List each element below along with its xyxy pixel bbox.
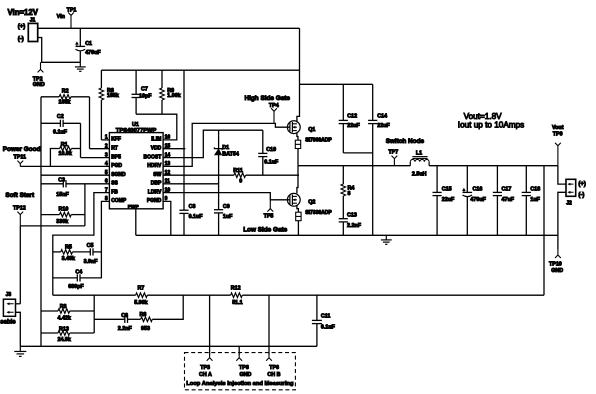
- ground at output rail: [385, 235, 387, 239]
- capacitor C12 22uF input: [342, 84, 344, 120]
- svg-text:C7: C7: [141, 87, 148, 93]
- capacitor C8 0.1uF VDD bypass: [183, 149, 185, 211]
- svg-text:165k: 165k: [107, 93, 119, 99]
- svg-text:8: 8: [348, 191, 351, 197]
- svg-text:C18: C18: [530, 186, 540, 192]
- svg-text:TP4: TP4: [269, 103, 279, 109]
- svg-text:KFF: KFF: [111, 137, 121, 143]
- svg-text:16: 16: [165, 135, 171, 141]
- svg-text:TP7: TP7: [388, 150, 398, 156]
- svg-text:C16: C16: [473, 186, 483, 192]
- svg-text:0.1uF: 0.1uF: [321, 324, 336, 330]
- svg-text:C4: C4: [75, 270, 82, 276]
- svg-text:J2: J2: [566, 200, 572, 206]
- svg-text:BOOST: BOOST: [144, 154, 162, 160]
- svg-text:GND: GND: [240, 372, 252, 378]
- wire Vin branch down to Q1 drain: [297, 28, 300, 122]
- capacitor C11 0.1uF: [316, 295, 318, 320]
- svg-text:PGND: PGND: [147, 198, 162, 204]
- wire J3 top pin to TP12 net: [16, 303, 21, 305]
- wire ILIM net C7 R9 to pin 16: [136, 114, 177, 140]
- svg-text:953: 953: [141, 326, 150, 332]
- svg-text:5.90k: 5.90k: [134, 300, 147, 306]
- svg-text:TP8: TP8: [239, 365, 249, 371]
- capacitor C14 22uF input: [372, 84, 374, 120]
- svg-text:470uF: 470uF: [85, 50, 101, 56]
- svg-text:C1: C1: [85, 41, 92, 47]
- wire node A between R7 and R12: [147, 294, 230, 296]
- svg-text:J3: J3: [6, 292, 12, 298]
- svg-text:C3: C3: [58, 177, 65, 183]
- svg-text:R3: R3: [60, 304, 67, 310]
- wire C2 riser to BP5 pin3: [80, 123, 82, 157]
- svg-text:10pF: 10pF: [139, 94, 152, 100]
- svg-text:BP5: BP5: [111, 154, 121, 160]
- svg-text:Switch Node: Switch Node: [386, 138, 425, 145]
- svg-text:D1: D1: [222, 145, 229, 151]
- svg-text:SS: SS: [111, 181, 118, 187]
- svg-text:L1: L1: [416, 151, 422, 157]
- svg-text:GND: GND: [551, 268, 563, 274]
- svg-text:1uF: 1uF: [530, 197, 540, 203]
- resistor R12 51.1 loop injection: [231, 293, 243, 298]
- svg-text:2.2nF: 2.2nF: [347, 223, 362, 229]
- svg-text:C5: C5: [87, 243, 94, 249]
- svg-text:R13: R13: [59, 327, 69, 333]
- resistor R7 5.90k feedback: [136, 293, 148, 298]
- svg-text:Iout up to 10Amps: Iout up to 10Amps: [458, 120, 524, 129]
- wire R8 riser to node A: [152, 295, 183, 319]
- capacitor C7 10pF: [135, 70, 137, 94]
- svg-text:3.9nF: 3.9nF: [84, 259, 99, 265]
- inductor L1 2.5uH: [409, 162, 411, 166]
- svg-text:(+): (+): [18, 24, 26, 30]
- wire C12 C14 input cap top rail: [300, 83, 373, 85]
- svg-text:0.1uF: 0.1uF: [264, 159, 279, 165]
- svg-text:R7: R7: [138, 286, 145, 292]
- svg-text:0: 0: [239, 179, 242, 185]
- transistor Q2 SI7336ADP low side: [287, 193, 300, 206]
- capacitor C4 680pF: [53, 277, 78, 279]
- svg-text:R11: R11: [233, 168, 243, 174]
- wire Q2 drain from switch node: [297, 166, 298, 194]
- wire Vin sub-rail to R6 C7 R9 VDD: [101, 69, 299, 71]
- svg-text:R10: R10: [59, 207, 69, 213]
- connector J1: [28, 23, 37, 41]
- wire VDD riser from rail to pin 15: [183, 70, 185, 149]
- svg-text:51.1: 51.1: [232, 300, 242, 306]
- test point TP4 High Side Gate: [271, 108, 277, 123]
- svg-text:(-): (-): [578, 193, 584, 199]
- svg-text:680pF: 680pF: [68, 284, 84, 290]
- svg-text:C11: C11: [321, 313, 331, 319]
- svg-text:R1: R1: [61, 142, 68, 148]
- wire input caps to ground rail: [343, 152, 372, 154]
- svg-text:C12: C12: [347, 113, 357, 119]
- resistor R1 10.0k PGD pull-up: [50, 149, 59, 167]
- capacitor C3 15nF soft start: [41, 183, 63, 185]
- svg-text:0.1uF: 0.1uF: [53, 129, 68, 135]
- wire TP12 row: [20, 225, 85, 227]
- wire PGD row to TP11: [20, 165, 109, 167]
- svg-text:15nF: 15nF: [56, 192, 69, 198]
- svg-text:Power Good: Power Good: [3, 146, 41, 153]
- svg-text:47uF: 47uF: [502, 197, 515, 203]
- svg-text:22uF: 22uF: [347, 123, 360, 129]
- wire Q2 source with package pads: [297, 205, 299, 212]
- capacitor C17 47uF output: [496, 166, 498, 193]
- svg-text:SI7860ADP: SI7860ADP: [305, 137, 332, 143]
- test point TP1 Vin: [68, 12, 74, 28]
- test point TP5 Low Side Gate: [267, 200, 273, 212]
- capacitor C15 22uF output: [436, 166, 438, 193]
- wire SGND pin5 to gnd vertical: [41, 174, 109, 176]
- svg-text:C2: C2: [57, 114, 64, 120]
- wire Vout row: [429, 165, 558, 167]
- wire Vin rail from J1 to Q1 drain branch: [38, 27, 300, 29]
- svg-text:TP3: TP3: [200, 365, 210, 371]
- wire HDRV pin13 to Q1 gate: [163, 123, 290, 166]
- svg-text:TP10: TP10: [549, 262, 562, 268]
- wire switch node row: [298, 165, 410, 167]
- resistor R11 0 ohm SW sense: [234, 173, 246, 178]
- svg-text:(-): (-): [18, 37, 24, 43]
- svg-text:BAT54: BAT54: [222, 152, 239, 158]
- svg-text:C17: C17: [502, 186, 512, 192]
- svg-text:C6: C6: [121, 313, 128, 319]
- svg-text:Loop Analysis Injection and Me: Loop Analysis Injection and Measuring: [186, 381, 294, 387]
- resistor R9 1.00k ILIM: [161, 70, 163, 88]
- svg-text:GND: GND: [33, 82, 45, 88]
- wire node B from R12 to sense riser: [242, 294, 544, 296]
- resistor R13 24.9k divider: [41, 332, 58, 334]
- svg-text:TP9: TP9: [553, 131, 563, 137]
- svg-text:TP1: TP1: [67, 7, 77, 13]
- svg-text:PWP: PWP: [128, 204, 140, 210]
- connector J2: [566, 179, 576, 196]
- svg-text:sable: sable: [0, 320, 16, 326]
- wire PWP pad to ground rail: [135, 209, 137, 236]
- svg-text:SGND: SGND: [111, 172, 126, 178]
- capacitor C16 470uF output: [466, 166, 468, 193]
- svg-text:LDRV: LDRV: [148, 189, 162, 195]
- wire Q1 source with package pads: [297, 132, 298, 140]
- svg-text:High Side Gate: High Side Gate: [245, 95, 291, 102]
- svg-text:4.42k: 4.42k: [58, 315, 71, 321]
- capacitor C2 0.1uF BP5 bypass: [41, 122, 60, 124]
- resistor R10 330k soft start: [41, 214, 60, 216]
- wire KFF pin1 stub: [101, 139, 109, 141]
- wire Vout sense riser: [543, 166, 545, 296]
- svg-text:R5: R5: [65, 245, 72, 251]
- dashed loop analysis box: [185, 353, 296, 390]
- svg-text:TP11: TP11: [14, 155, 27, 161]
- test point TP2 GND: [38, 62, 44, 72]
- svg-text:SI7336ADP: SI7336ADP: [305, 210, 332, 216]
- wire R2 riser to RT pin2: [89, 97, 91, 149]
- svg-text:DBP: DBP: [151, 181, 162, 187]
- wire J1 minus to C1 bottom: [38, 38, 81, 63]
- svg-text:J1: J1: [30, 18, 36, 24]
- svg-text:Vin=12V: Vin=12V: [8, 8, 39, 17]
- svg-text:24.9k: 24.9k: [58, 337, 71, 343]
- svg-text:RT: RT: [111, 146, 118, 152]
- svg-text:22uF: 22uF: [442, 197, 455, 203]
- wire BOOST pin14 routing: [163, 130, 263, 157]
- test point TP10 GND: [555, 250, 561, 258]
- wire COMP pin8 riser: [101, 201, 109, 278]
- svg-text:FB: FB: [111, 189, 118, 195]
- svg-text:Low Side Gate: Low Side Gate: [243, 226, 287, 233]
- wire DBP pin11 to D1 C9: [163, 183, 219, 185]
- wire J2 minus to ground rail and TP10: [558, 192, 566, 250]
- capacitor C6 2.2nF injection: [94, 318, 125, 320]
- svg-text:TP12: TP12: [13, 206, 26, 212]
- svg-text:Q1: Q1: [308, 127, 315, 133]
- svg-text:(+): (+): [578, 181, 586, 187]
- svg-text:TP6: TP6: [269, 365, 279, 371]
- node analog ground vertical: [40, 97, 42, 346]
- wire feedback row left of R7: [53, 294, 136, 296]
- svg-text:HDRV: HDRV: [147, 163, 162, 169]
- test point TP8 GND riser: [238, 346, 240, 354]
- ground at J3: [19, 346, 21, 351]
- svg-text:C14: C14: [377, 113, 387, 119]
- resistor R5 3.48k: [53, 251, 61, 253]
- svg-text:R8: R8: [140, 312, 147, 318]
- svg-text:Q2: Q2: [308, 200, 315, 206]
- wire FB pin7 to comp network: [53, 193, 110, 296]
- svg-text:3.48k: 3.48k: [62, 256, 75, 262]
- svg-text:TP5: TP5: [264, 214, 274, 220]
- svg-text:15: 15: [165, 144, 171, 150]
- svg-text:TPS40077PWP: TPS40077PWP: [116, 128, 157, 134]
- svg-text:Soft Start: Soft Start: [5, 192, 35, 199]
- svg-text:165k: 165k: [59, 100, 71, 106]
- wire power ground rail: [136, 234, 558, 236]
- svg-text:CH A: CH A: [199, 372, 212, 378]
- resistor R8 953 injection: [128, 318, 141, 320]
- resistor R4 8 snubber: [342, 166, 344, 184]
- wire TP12 net down to J3: [19, 226, 21, 304]
- svg-text:C10: C10: [266, 147, 276, 153]
- capacitor C10 0.1uF boost: [262, 130, 264, 153]
- svg-text:0.1uF: 0.1uF: [189, 214, 204, 220]
- wire J3 bottom pin to ground: [16, 312, 21, 346]
- test point TP3 CH A riser: [209, 295, 211, 354]
- capacitor C13 2.2nF snubber: [342, 196, 344, 219]
- diode D1 BAT54 boost: [218, 130, 220, 148]
- wire LDRV pin10 to Q2 gate: [163, 193, 290, 200]
- svg-text:VDD: VDD: [151, 146, 162, 152]
- test point TP6 CH B riser: [268, 295, 270, 354]
- wire PGND pin9 to power ground rail: [163, 201, 171, 235]
- capacitor C18 1uF output: [525, 166, 527, 193]
- capacitor C9 1uF DBP bypass: [214, 209, 223, 211]
- capacitor C1 470uF input bulk: [79, 28, 81, 46]
- svg-text:1uF: 1uF: [223, 214, 233, 220]
- svg-text:2.5uH: 2.5uH: [412, 172, 427, 178]
- svg-text:1.00k: 1.00k: [167, 93, 180, 99]
- svg-text:470uF: 470uF: [470, 197, 486, 203]
- svg-text:C8: C8: [189, 204, 196, 210]
- svg-text:COMP: COMP: [111, 198, 127, 204]
- wire SW pin12 row with R11: [163, 174, 234, 176]
- wire R10 riser to SS row: [84, 184, 86, 226]
- resistor R6 165k KFF feedforward: [100, 70, 102, 88]
- svg-text:Vout: Vout: [552, 125, 564, 131]
- ground at C1: [79, 62, 81, 66]
- resistor R3 4.42k divider: [41, 310, 58, 312]
- svg-text:R2: R2: [62, 89, 69, 95]
- wire Vout to J2 plus: [558, 166, 566, 184]
- svg-text:R12: R12: [231, 286, 241, 292]
- svg-text:22uF: 22uF: [377, 123, 390, 129]
- svg-text:SW: SW: [153, 172, 161, 178]
- test point TP7 Switch Node: [392, 156, 398, 166]
- svg-text:330k: 330k: [56, 219, 68, 225]
- svg-text:PGD: PGD: [111, 163, 122, 169]
- test point TP9 Vout: [555, 143, 561, 166]
- svg-text:ILIM: ILIM: [151, 137, 161, 143]
- svg-text:10.0k: 10.0k: [59, 151, 72, 157]
- resistor R2 165k RT to gnd net: [41, 96, 59, 98]
- svg-text:C9: C9: [223, 204, 230, 210]
- test point TP11 Power Good: [17, 161, 23, 167]
- svg-text:C13: C13: [347, 212, 357, 218]
- transistor Q1 SI7860ADP high side: [287, 121, 300, 134]
- op-amp U1 TPS40077PWP controller body: [109, 133, 163, 209]
- svg-text:Vin: Vin: [57, 14, 65, 20]
- wire signal ground rail: [20, 345, 317, 347]
- svg-text:C15: C15: [442, 186, 452, 192]
- wire divider riser FB node: [93, 295, 95, 333]
- svg-text:2.2nF: 2.2nF: [118, 326, 133, 332]
- svg-text:CH B: CH B: [267, 372, 280, 378]
- capacitor C5 3.9nF: [89, 248, 91, 255]
